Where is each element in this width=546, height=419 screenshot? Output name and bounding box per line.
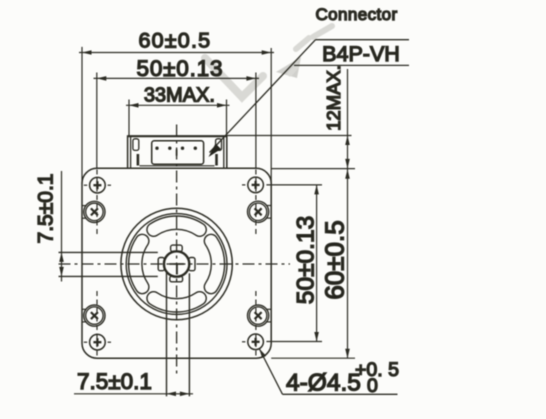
mounting hole BR: [242, 334, 263, 350]
dimension 50±0.13 right: [266, 185, 322, 342]
svg-text:Connector: Connector: [315, 5, 397, 24]
connector latch left: [133, 139, 139, 166]
dimension 60±0.5 right: [271, 357, 355, 359]
vertical centerline: [176, 125, 178, 374]
svg-text:60±0.5: 60±0.5: [138, 28, 211, 52]
shaft line right: [188, 273, 190, 396]
mounting hole TR: [242, 177, 263, 193]
leader and label B4P-VH: [209, 40, 410, 157]
mounting hole BL: [84, 334, 111, 350]
svg-text:4-Ø4.5: 4-Ø4.5: [286, 370, 361, 397]
connector latch right: [216, 139, 222, 166]
svg-text:7.5±0.1: 7.5±0.1: [77, 369, 152, 394]
connector outer box: [128, 136, 227, 168]
svg-text:B4P-VH: B4P-VH: [322, 42, 400, 66]
flange inner circle: [126, 214, 227, 315]
dimension 60±0.5 top: [79, 47, 274, 184]
hole centerline column TL: [96, 170, 98, 237]
svg-text:12MAX.: 12MAX.: [323, 65, 344, 131]
svg-text:60±0.5: 60±0.5: [320, 220, 350, 299]
dimension 7.5±0.1 bottom: [74, 392, 193, 397]
motor body outline: [82, 168, 271, 358]
screw BR: [248, 305, 272, 326]
flat band left lower edge: [59, 275, 158, 277]
horizontal centerline: [59, 263, 291, 265]
slot top: [147, 216, 206, 236]
svg-text:0: 0: [367, 375, 378, 397]
connector pins: [155, 147, 197, 150]
watermark: [205, 26, 332, 97]
dimension 7.5±0.1 left: [59, 171, 64, 282]
center mark T: [170, 264, 185, 275]
dimension 12MAX right: [227, 69, 355, 358]
mounting hole TL: [84, 177, 111, 193]
label 4-Ø4.5 with leader: [259, 349, 397, 395]
screw TL: [82, 201, 105, 222]
flat band left upper edge: [59, 251, 158, 253]
slot right: [204, 234, 224, 293]
connector polarity notch: [176, 149, 178, 156]
svg-text:33MAX.: 33MAX.: [144, 84, 215, 106]
shaft circle: [164, 251, 189, 276]
flange outer circle: [121, 208, 232, 319]
dimension 50±0.13 top: [94, 73, 260, 169]
screw BL: [82, 305, 105, 326]
dimension 33MAX top: [126, 100, 230, 136]
svg-text:50±0.13: 50±0.13: [137, 56, 224, 81]
hole centerline column BR: [255, 291, 257, 358]
hole centerline column TR: [255, 170, 257, 237]
connector inner wall left: [130, 136, 132, 168]
connector bottom lip: [140, 165, 215, 167]
connector inner wall right: [223, 136, 225, 168]
hub tab right: [189, 258, 195, 271]
slot left: [129, 234, 149, 293]
hub tab left: [158, 258, 164, 271]
connector housing B4P-VH: [152, 141, 204, 164]
svg-text:50±0.13: 50±0.13: [293, 216, 320, 304]
slot bottom: [147, 292, 206, 312]
screw TR: [248, 201, 272, 222]
svg-text:7.5±0.1: 7.5±0.1: [35, 174, 58, 244]
shaft line left: [166, 273, 168, 397]
hub tab bottom: [170, 276, 183, 282]
hole centerline column BL: [96, 291, 98, 358]
hub tab top: [171, 245, 183, 251]
